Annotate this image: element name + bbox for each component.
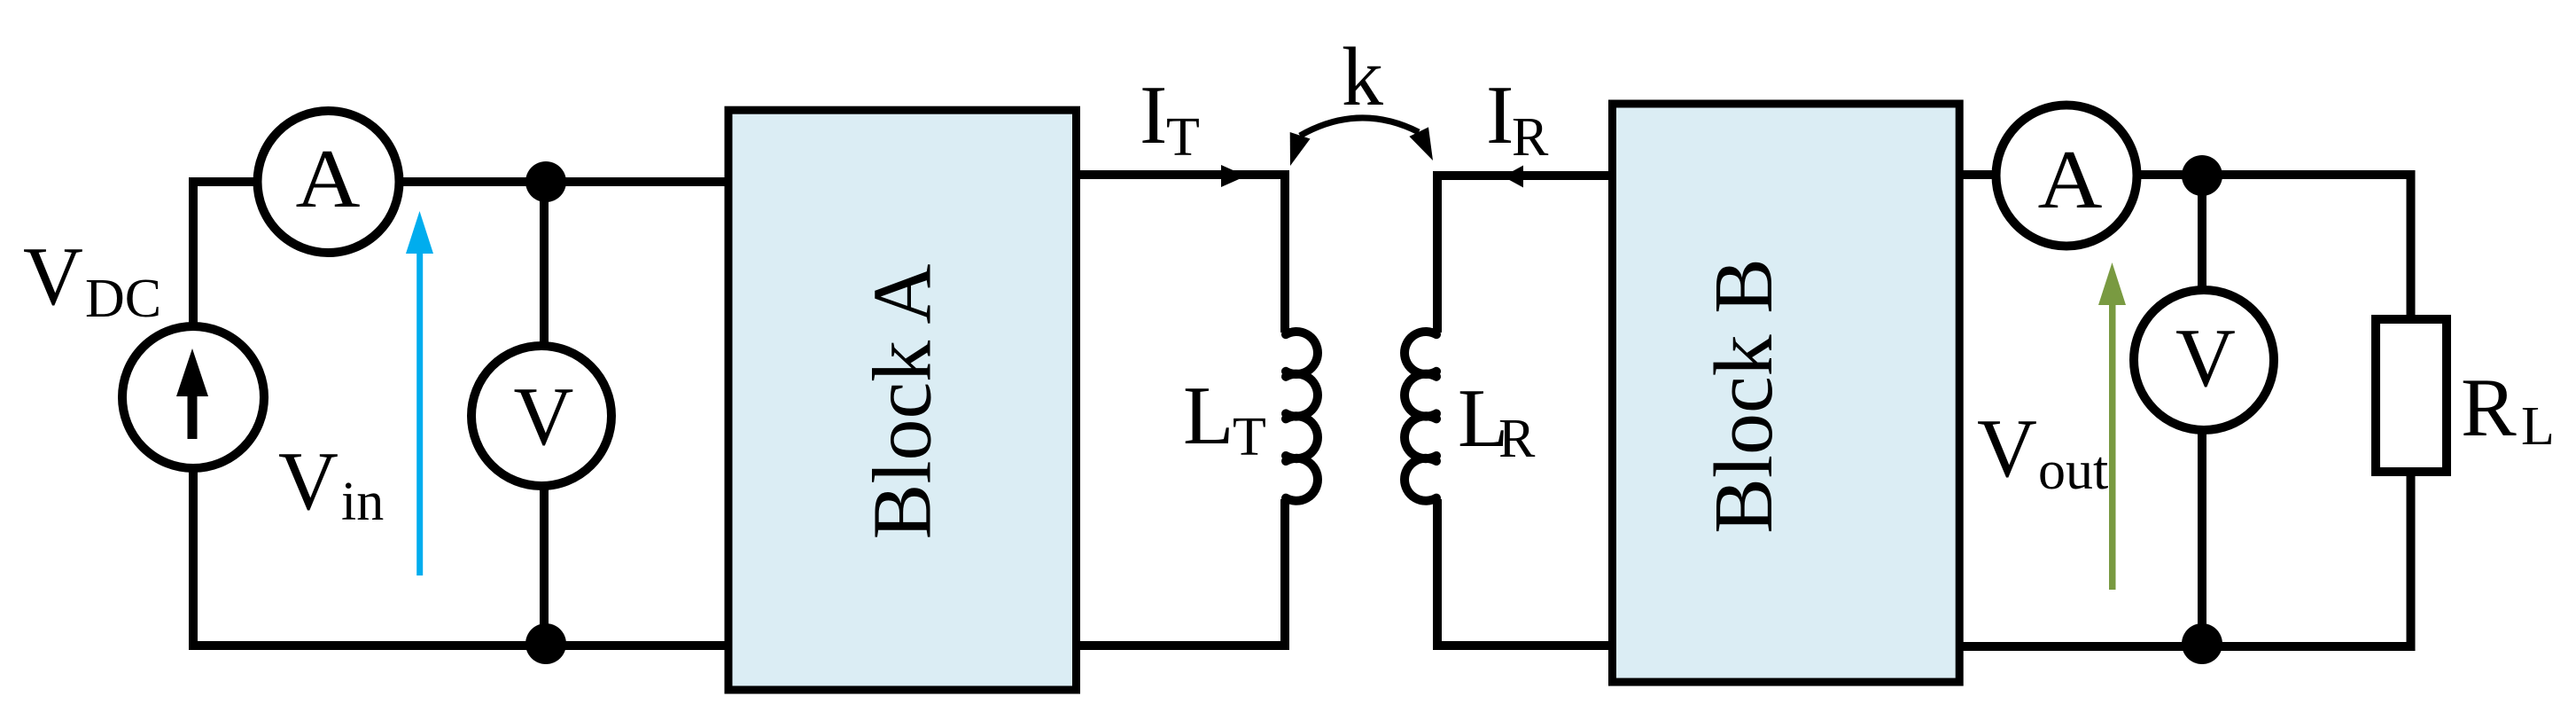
svg-text:V: V bbox=[23, 231, 83, 323]
svg-text:R: R bbox=[1512, 107, 1549, 168]
svg-text:I: I bbox=[1140, 69, 1167, 161]
svg-text:V: V bbox=[278, 435, 339, 528]
svg-text:Block B: Block B bbox=[1698, 258, 1790, 534]
svg-text:I: I bbox=[1486, 69, 1514, 161]
svg-text:R: R bbox=[1498, 409, 1536, 469]
svg-text:A: A bbox=[2038, 134, 2103, 226]
svg-text:V: V bbox=[514, 371, 574, 463]
svg-text:L: L bbox=[1183, 370, 1234, 462]
svg-text:Block A: Block A bbox=[857, 264, 949, 540]
svg-text:T: T bbox=[1166, 107, 1200, 168]
svg-text:in: in bbox=[341, 472, 384, 532]
svg-text:A: A bbox=[296, 133, 361, 225]
svg-text:DC: DC bbox=[85, 269, 161, 329]
svg-text:out: out bbox=[2038, 441, 2108, 501]
svg-text:T: T bbox=[1233, 407, 1266, 467]
svg-text:V: V bbox=[2175, 312, 2236, 404]
svg-text:R: R bbox=[2461, 362, 2517, 454]
svg-text:V: V bbox=[1977, 403, 2037, 495]
svg-text:k: k bbox=[1342, 31, 1383, 123]
svg-text:L: L bbox=[2521, 396, 2555, 457]
